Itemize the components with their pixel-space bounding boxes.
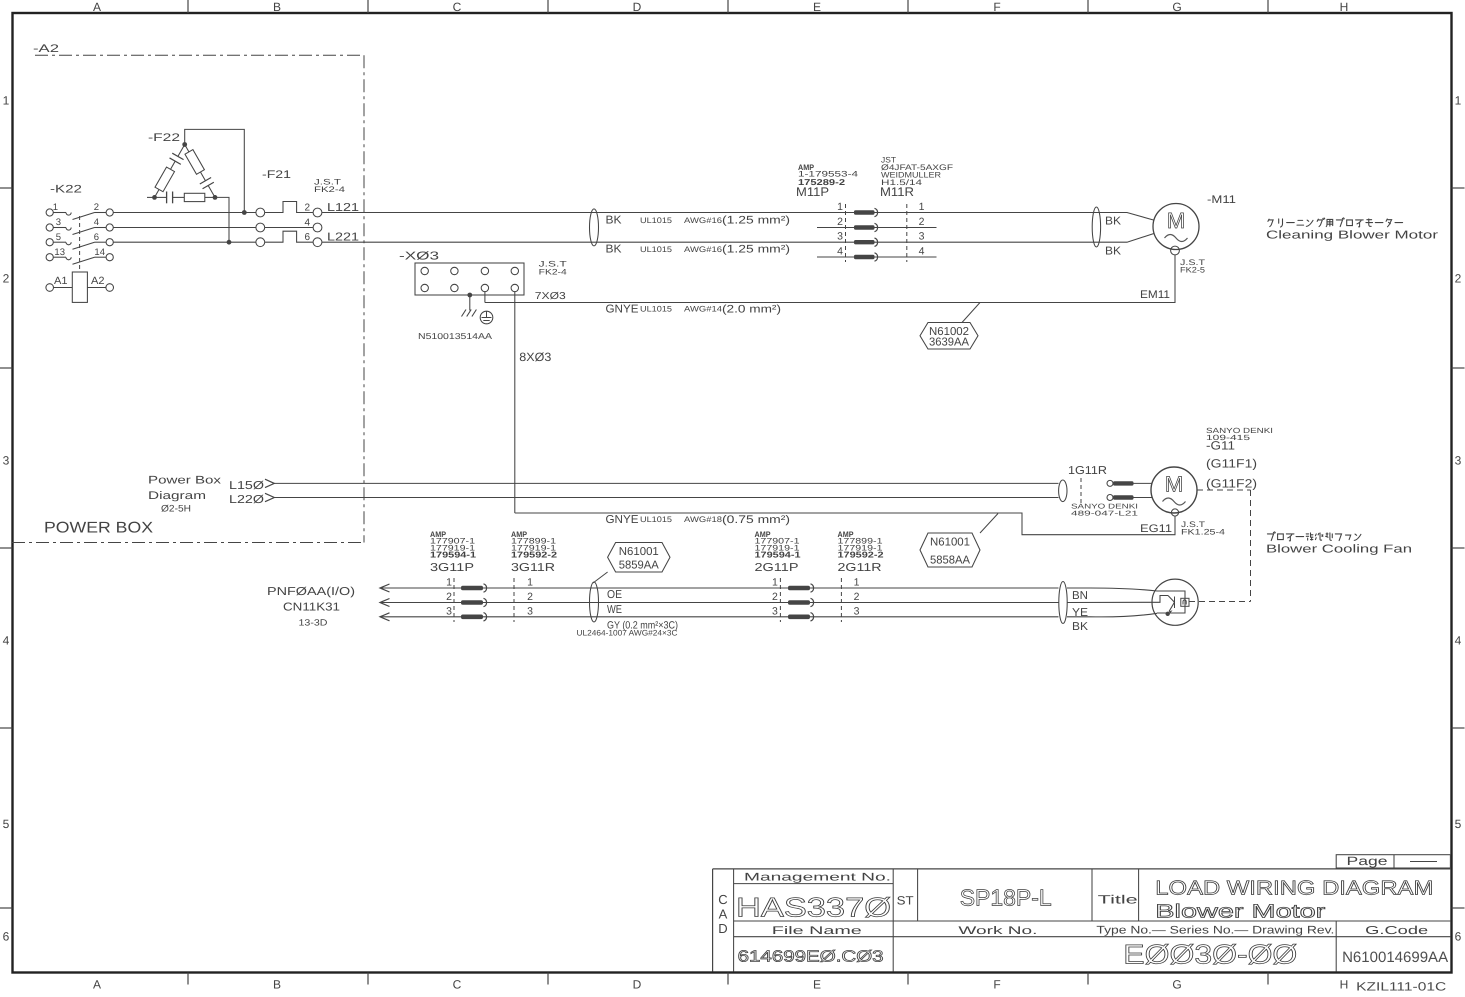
svg-text:5: 5: [1455, 817, 1462, 831]
svg-text:BN: BN: [1072, 590, 1088, 602]
svg-text:4: 4: [94, 217, 99, 228]
svg-text:B: B: [273, 978, 281, 992]
svg-text:179594-1: 179594-1: [430, 549, 476, 559]
svg-text:3: 3: [837, 231, 843, 243]
svg-text:N61001: N61001: [619, 546, 659, 558]
svg-text:C: C: [453, 0, 462, 14]
svg-text:Power Box: Power Box: [148, 475, 222, 487]
svg-text:4: 4: [919, 246, 925, 258]
svg-text:B: B: [273, 0, 281, 14]
svg-text:5: 5: [56, 232, 61, 243]
svg-text:6: 6: [1455, 930, 1462, 944]
svg-text:WE: WE: [607, 604, 622, 616]
svg-text:BK: BK: [1105, 246, 1121, 258]
svg-text:3: 3: [919, 231, 925, 243]
svg-text:A: A: [93, 0, 101, 14]
svg-text:1: 1: [919, 201, 925, 213]
svg-text:-F21: -F21: [262, 169, 291, 181]
svg-text:Title: Title: [1098, 893, 1139, 907]
svg-text:179594-1: 179594-1: [755, 549, 801, 559]
svg-text:UL1015: UL1015: [640, 305, 673, 314]
svg-text:A: A: [93, 978, 101, 992]
svg-text:GNYE: GNYE: [606, 514, 639, 526]
svg-text:PNFØAA(I/O): PNFØAA(I/O): [267, 586, 355, 598]
svg-text:179592-2: 179592-2: [511, 549, 557, 559]
svg-text:1: 1: [3, 94, 10, 108]
svg-text:(1.25 mm²): (1.25 mm²): [722, 244, 790, 256]
svg-text:614699EØ.CØ3: 614699EØ.CØ3: [738, 949, 884, 966]
svg-text:AWG#14: AWG#14: [684, 305, 723, 314]
svg-text:6: 6: [304, 232, 310, 243]
svg-text:3: 3: [772, 605, 778, 617]
svg-text:C: C: [718, 892, 727, 907]
svg-text:EØØ3Ø-ØØ: EØØ3Ø-ØØ: [1123, 940, 1297, 970]
svg-text:2: 2: [527, 591, 533, 603]
svg-text:D: D: [718, 921, 727, 936]
svg-text:1: 1: [854, 577, 860, 589]
svg-text:Diagram: Diagram: [148, 490, 206, 502]
svg-text:H: H: [1340, 978, 1349, 992]
svg-text:UL1015: UL1015: [640, 515, 673, 524]
svg-text:2: 2: [1455, 272, 1462, 286]
svg-text:2: 2: [772, 591, 778, 603]
svg-text:FK1.25-4: FK1.25-4: [1181, 527, 1226, 536]
svg-text:Cleaning Blower Motor: Cleaning Blower Motor: [1266, 230, 1438, 242]
svg-text:3639AA: 3639AA: [929, 337, 969, 349]
svg-text:-XØ3: -XØ3: [399, 251, 439, 263]
svg-text:Page: Page: [1347, 854, 1388, 868]
svg-text:-G11: -G11: [1206, 439, 1235, 453]
svg-text:BK: BK: [1072, 621, 1088, 633]
svg-text:EM11: EM11: [1140, 289, 1170, 301]
svg-text:Blower Cooling Fan: Blower Cooling Fan: [1266, 544, 1412, 556]
svg-text:-F22: -F22: [148, 132, 180, 144]
svg-text:UL2464-1007 AWG#24×3C: UL2464-1007 AWG#24×3C: [577, 629, 678, 638]
svg-text:2: 2: [854, 591, 860, 603]
svg-text:7XØ3: 7XØ3: [535, 291, 567, 302]
svg-text:FK2-4: FK2-4: [539, 267, 568, 276]
svg-text:1: 1: [527, 577, 533, 589]
svg-text:2G11R: 2G11R: [838, 562, 882, 574]
svg-text:CN11K31: CN11K31: [283, 602, 340, 614]
svg-text:UL1015: UL1015: [640, 245, 673, 254]
svg-text:N510013514AA: N510013514AA: [418, 331, 492, 341]
svg-text:13-3D: 13-3D: [299, 618, 329, 628]
svg-text:-K22: -K22: [50, 184, 82, 196]
svg-text:1: 1: [53, 202, 58, 213]
svg-text:POWER BOX: POWER BOX: [44, 520, 154, 537]
svg-text:3G11R: 3G11R: [511, 562, 555, 574]
svg-text:SP18P-L: SP18P-L: [960, 885, 1052, 911]
svg-text:2: 2: [837, 216, 843, 228]
svg-text:BK: BK: [606, 244, 622, 256]
svg-text:OE: OE: [607, 589, 622, 601]
svg-text:179592-2: 179592-2: [838, 549, 884, 559]
svg-text:F: F: [993, 0, 1000, 14]
svg-text:ST: ST: [897, 894, 915, 908]
svg-text:M: M: [1167, 208, 1185, 233]
svg-text:4: 4: [3, 634, 10, 648]
svg-text:Management No.: Management No.: [744, 872, 891, 884]
svg-text:FK2-4: FK2-4: [314, 185, 346, 194]
svg-text:G.Code: G.Code: [1365, 925, 1428, 937]
svg-text:F: F: [993, 978, 1000, 992]
svg-text:489-047-L21: 489-047-L21: [1071, 511, 1138, 518]
svg-text:3: 3: [446, 605, 452, 617]
svg-text:HAS337Ø: HAS337Ø: [736, 893, 891, 923]
svg-text:1: 1: [772, 577, 778, 589]
svg-text:G: G: [1172, 0, 1181, 14]
svg-text:3: 3: [854, 605, 860, 617]
svg-text:Ø2-5H: Ø2-5H: [161, 504, 191, 515]
svg-text:EG11: EG11: [1140, 523, 1172, 535]
svg-text:(G11F1): (G11F1): [1206, 457, 1257, 471]
svg-text:5: 5: [3, 817, 10, 831]
svg-text:Type No.— Series No.— Drawing: Type No.— Series No.— Drawing Rev.: [1096, 925, 1334, 937]
svg-text:Blower Motor: Blower Motor: [1155, 902, 1326, 923]
svg-text:3: 3: [56, 217, 61, 228]
svg-text:4: 4: [304, 218, 310, 229]
svg-text:AWG#18: AWG#18: [684, 515, 723, 524]
svg-text:KZIL111-01C: KZIL111-01C: [1356, 980, 1446, 993]
svg-text:FK2-5: FK2-5: [1180, 265, 1206, 274]
svg-text:4: 4: [1455, 634, 1462, 648]
svg-text:N610014699AA: N610014699AA: [1342, 949, 1448, 966]
svg-text:G: G: [1172, 978, 1181, 992]
svg-text:A: A: [719, 907, 728, 922]
svg-text:M11R: M11R: [880, 185, 914, 199]
svg-text:13: 13: [54, 247, 65, 258]
svg-text:(2.0 mm²): (2.0 mm²): [722, 304, 781, 316]
svg-text:1G11R: 1G11R: [1068, 465, 1107, 477]
svg-text:5858AA: 5858AA: [930, 555, 970, 567]
svg-text:A1: A1: [54, 275, 68, 287]
svg-text:C: C: [453, 978, 462, 992]
svg-text:BK: BK: [606, 215, 622, 227]
svg-text:GNYE: GNYE: [606, 304, 639, 316]
svg-text:A2: A2: [91, 275, 105, 287]
svg-text:L22Ø: L22Ø: [229, 494, 264, 506]
svg-text:3: 3: [3, 454, 10, 468]
svg-text:E: E: [813, 0, 821, 14]
svg-text:2: 2: [919, 216, 925, 228]
svg-text:D: D: [633, 978, 642, 992]
svg-text:L15Ø: L15Ø: [229, 480, 264, 492]
svg-text:M: M: [1165, 472, 1183, 497]
svg-text:1: 1: [1455, 94, 1462, 108]
svg-text:3: 3: [527, 605, 533, 617]
svg-text:UL1015: UL1015: [640, 216, 673, 225]
svg-text:M11P: M11P: [796, 185, 829, 199]
svg-text:5859AA: 5859AA: [619, 560, 659, 572]
svg-text:D: D: [633, 0, 642, 14]
svg-text:E: E: [813, 978, 821, 992]
svg-text:AWG#16: AWG#16: [684, 216, 723, 225]
svg-text:(1.25 mm²): (1.25 mm²): [722, 215, 790, 227]
svg-text:N61001: N61001: [930, 537, 970, 549]
svg-text:6: 6: [94, 232, 99, 243]
svg-text:6: 6: [3, 930, 10, 944]
svg-text:2: 2: [304, 203, 310, 214]
svg-text:AWG#16: AWG#16: [684, 245, 723, 254]
svg-text:1: 1: [446, 577, 452, 589]
svg-text:2: 2: [3, 272, 10, 286]
svg-text:(G11F2): (G11F2): [1206, 477, 1257, 491]
svg-text:BK: BK: [1105, 216, 1121, 228]
svg-text:2: 2: [446, 591, 452, 603]
svg-text:8XØ3: 8XØ3: [519, 350, 551, 364]
svg-text:4: 4: [837, 246, 843, 258]
svg-text:File Name: File Name: [772, 925, 862, 937]
svg-text:-M11: -M11: [1207, 194, 1236, 206]
svg-text:2G11P: 2G11P: [755, 562, 799, 574]
svg-text:2: 2: [94, 202, 99, 213]
svg-text:LOAD WIRING DIAGRAM: LOAD WIRING DIAGRAM: [1155, 878, 1433, 900]
svg-text:(0.75 mm²): (0.75 mm²): [722, 514, 790, 526]
svg-text:3G11P: 3G11P: [430, 562, 474, 574]
svg-text:3: 3: [1455, 454, 1462, 468]
svg-text:Work No.: Work No.: [958, 925, 1037, 937]
svg-text:1: 1: [837, 201, 843, 213]
svg-text:H: H: [1340, 0, 1349, 14]
svg-text:-A2: -A2: [33, 43, 59, 55]
svg-text:14: 14: [94, 247, 105, 258]
